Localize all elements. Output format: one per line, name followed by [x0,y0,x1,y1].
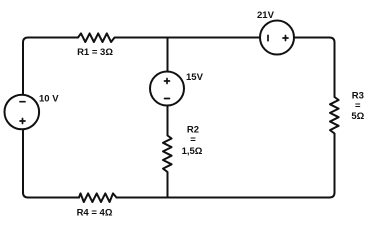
voltage source V2 21V [260,21,294,55]
voltage source V3 15V [150,72,184,106]
wire: top middle R1 to 21V source [116,37,260,39]
svg-text:21V: 21V [257,10,275,21]
svg-text:15V: 15V [186,72,204,83]
resistor R3 [330,96,339,134]
svg-text:1,5Ω: 1,5Ω [182,146,203,157]
resistor R4 [79,193,117,202]
svg-text:10 V: 10 V [39,94,59,105]
wire: left top segment + top wire to R1 [23,38,78,95]
minus sign of V2 (left, vertical bar) [267,35,269,40]
resistor R1 [78,33,116,42]
wire: right bottom from R3 to corner along bottom to R4 [117,134,335,198]
wire: middle branch R2 to bottom junction [167,173,169,198]
minus sign of V1 (top) [20,101,25,103]
plus sign of V2 (right) [283,36,288,41]
resistor R2 [163,135,172,174]
plus sign of V1 (bottom) [20,119,25,124]
svg-text:R2: R2 [187,124,199,135]
svg-text:=: = [190,135,196,146]
svg-text:R3: R3 [352,90,364,101]
minus sign of V3 (bottom) [165,98,170,100]
wire: bottom left from R4 to corner up to 10V source [23,131,79,198]
voltage source V1 10V [5,95,40,130]
svg-text:5Ω: 5Ω [351,111,364,122]
plus sign of V3 (top) [165,79,170,84]
svg-text:R1 = 3Ω: R1 = 3Ω [77,47,113,58]
wire: middle branch top (node junction to 15V) [167,38,169,72]
wire: middle branch from 15V to R2 [167,106,169,135]
wire: top right from 21V to corner down to R3 [294,38,335,97]
svg-text:R4 = 4Ω: R4 = 4Ω [77,208,113,219]
